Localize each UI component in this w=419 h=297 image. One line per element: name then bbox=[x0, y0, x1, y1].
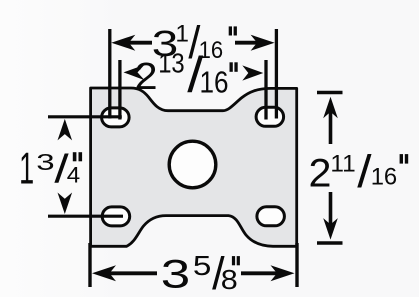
dimension 1 3/4 down arrow bbox=[58, 193, 73, 215]
label 1 3/4 bbox=[19, 145, 82, 194]
svg-text:2: 2 bbox=[135, 56, 158, 98]
svg-text:13: 13 bbox=[158, 47, 185, 78]
extension line inner-left bbox=[118, 60, 121, 120]
dimension 1 3/4 up arrow bbox=[58, 119, 73, 140]
dimension 3 1/16 right arrow bbox=[251, 35, 275, 51]
svg-text:1: 1 bbox=[19, 145, 34, 194]
svg-text:3: 3 bbox=[36, 149, 54, 175]
dimension 3 1/16 right shaft bbox=[235, 41, 262, 45]
dimension 2 11/16 top tick bbox=[317, 91, 343, 94]
dimension 3 1/16 line left arrow bbox=[111, 35, 135, 51]
plate outline bbox=[91, 88, 297, 246]
svg-text:4: 4 bbox=[67, 163, 80, 188]
label 3 5/8 bbox=[161, 248, 240, 297]
dimension 3 5/8 right arrow bbox=[271, 265, 295, 281]
dimension 3 5/8 left arrow bbox=[92, 265, 116, 281]
label 3 1/16 bbox=[152, 17, 237, 68]
dimension 3 5/8 left extension line bbox=[88, 243, 91, 287]
dimension 2 13/16 right arrow bbox=[242, 65, 263, 80]
hole top-left bbox=[102, 108, 130, 127]
svg-text:5: 5 bbox=[193, 250, 212, 281]
dimension 3 5/8 right shaft bbox=[241, 271, 283, 275]
dimension 2 11/16 lower shaft bbox=[329, 192, 333, 226]
extension line inner-right bbox=[264, 60, 267, 120]
label 2 13/16 bbox=[135, 47, 238, 103]
dimension 1 3/4 lower extension line bbox=[48, 215, 123, 218]
label 2 11/16 bbox=[309, 146, 409, 197]
svg-text:1: 1 bbox=[175, 20, 189, 47]
svg-text:16: 16 bbox=[371, 164, 398, 191]
svg-text:11: 11 bbox=[330, 150, 355, 177]
hole bottom-left bbox=[102, 207, 130, 226]
hole bottom-right bbox=[257, 207, 285, 226]
dimension 2 11/16 bottom tick bbox=[317, 241, 343, 244]
svg-text:3: 3 bbox=[161, 251, 191, 296]
dimension 2 11/16 down arrow bbox=[323, 218, 338, 240]
center hole bbox=[169, 141, 216, 188]
dimension 3 1/16 left shaft bbox=[124, 41, 152, 45]
dimension 2 13/16 left arrow bbox=[124, 65, 145, 80]
dimension 1 3/4 upper extension line bbox=[48, 115, 122, 118]
dimension 3 5/8 right extension line bbox=[295, 243, 298, 287]
extension line outer-right bbox=[275, 29, 278, 119]
extension line outer-left bbox=[108, 29, 111, 119]
svg-text:8: 8 bbox=[221, 264, 238, 295]
hole top-right bbox=[256, 107, 284, 126]
svg-text:2: 2 bbox=[309, 151, 332, 195]
dimension 3 5/8 left shaft bbox=[104, 271, 157, 275]
svg-text:16: 16 bbox=[200, 67, 229, 100]
dimension 2 11/16 upper shaft bbox=[329, 110, 333, 144]
dimension 2 11/16 up arrow bbox=[323, 97, 338, 119]
